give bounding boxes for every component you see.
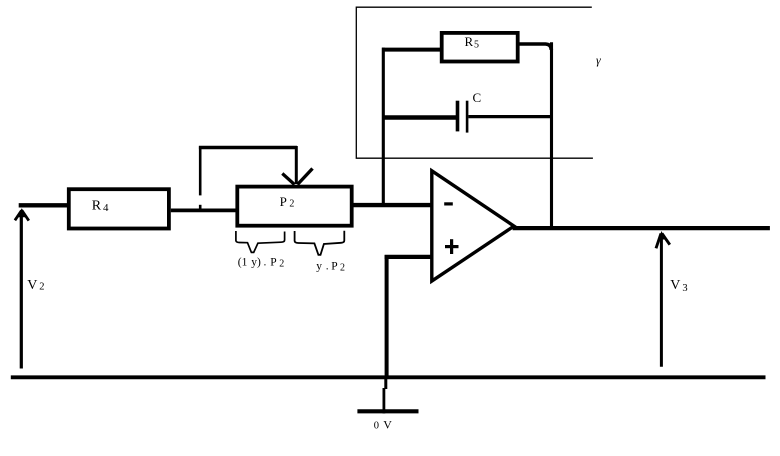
svg-text:γ: γ (596, 53, 601, 67)
wire R4 to P2 (171, 208, 237, 212)
wiper arrow onto P2 (282, 169, 312, 185)
wire P2 to op-amp inverting input (352, 203, 432, 207)
wire feedback right vertical (550, 42, 553, 229)
wire R5 right lead (518, 44, 551, 50)
bottom rail ground bus (11, 375, 766, 379)
wire input node to R4 (19, 203, 69, 207)
wire feedback left vertical (382, 48, 385, 207)
arrow V3 (656, 231, 670, 367)
resistor R5 (442, 33, 518, 62)
brace y portion of P2 (295, 231, 345, 255)
wire R5 left lead (382, 48, 441, 52)
feedback network box (gamma block outline) (356, 7, 593, 158)
svg-text:C: C (473, 90, 482, 105)
wire to non-inverting input (385, 255, 431, 377)
svg-text:V3: V3 (670, 278, 687, 294)
svg-text:y.P2: y.P2 (316, 261, 345, 274)
svg-text:0V: 0V (374, 418, 392, 432)
svg-text:V2: V2 (27, 278, 44, 293)
potentiometer P2 (237, 187, 351, 226)
brace (1-y) portion of P2 (236, 231, 285, 252)
resistor R4 (69, 189, 169, 228)
wire output (513, 226, 770, 230)
op-amp U1 (432, 171, 514, 281)
ground connection (357, 377, 418, 414)
svg-text:(1y).P2: (1y).P2 (238, 256, 284, 269)
wire wiper loop (199, 146, 297, 212)
arrow V2 (15, 208, 29, 368)
capacitor C (382, 101, 552, 133)
